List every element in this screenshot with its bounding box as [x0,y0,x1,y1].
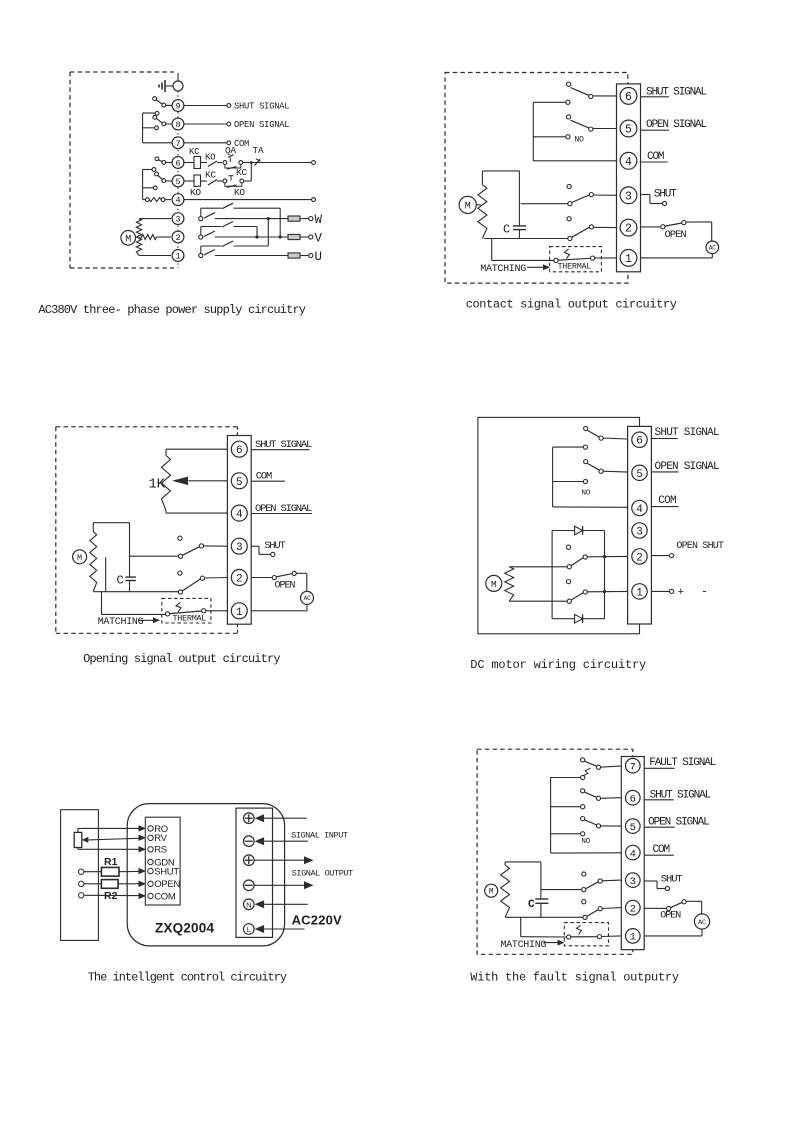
svg-text:2: 2 [636,552,643,564]
svg-text:5: 5 [625,124,632,137]
svg-text:2: 2 [630,903,636,915]
svg-text:KO: KO [190,187,201,198]
svg-text:KO: KO [205,153,215,163]
svg-text:KO: KO [234,187,245,198]
svg-text:6: 6 [625,91,632,104]
svg-text:3: 3 [636,527,643,539]
svg-text:MATCHING: MATCHING [98,617,144,628]
svg-text:contact signal output circuitr: contact signal output circuitry [466,298,677,312]
svg-text:AC220V: AC220V [292,913,342,928]
svg-text:AC: AC [698,919,706,927]
svg-text:2: 2 [236,574,243,586]
svg-text:With the fault signal outputry: With the fault signal outputry [470,971,679,985]
svg-text:3: 3 [236,542,243,554]
svg-text:THERMAL: THERMAL [558,262,592,272]
svg-text:5: 5 [630,822,636,834]
svg-text:NO: NO [582,838,591,846]
svg-text:SHUT: SHUT [654,188,677,200]
svg-text:KC: KC [189,147,200,157]
svg-text:3: 3 [630,876,636,888]
svg-text:FAULT SIGNAL: FAULT SIGNAL [649,757,716,769]
svg-text:OPEN SIGNAL: OPEN SIGNAL [234,120,289,130]
svg-text:L: L [247,925,251,934]
svg-text:1K: 1K [149,477,166,493]
svg-text:+: + [678,587,685,599]
svg-text:ZXQ2004: ZXQ2004 [155,920,214,935]
svg-text:Opening signal output circuitr: Opening signal output circuitry [83,652,280,666]
svg-text:8: 8 [175,120,180,130]
svg-text:OPEN: OPEN [660,911,681,922]
svg-text:COM: COM [256,470,272,482]
svg-text:RS: RS [154,845,167,856]
svg-text:4: 4 [636,504,643,516]
svg-text:N: N [246,900,251,909]
svg-text:M: M [77,553,82,563]
svg-text:M: M [491,579,497,590]
svg-text:6: 6 [236,445,243,457]
svg-text:4: 4 [630,848,636,860]
svg-text:COM: COM [653,844,670,856]
svg-text:AC: AC [304,595,311,602]
svg-text:SHUT: SHUT [264,540,285,552]
svg-text:AC380V three- phase power supp: AC380V three- phase power supply circuit… [38,303,305,317]
svg-text:M: M [465,201,471,212]
svg-text:COM: COM [647,151,664,163]
svg-text:4: 4 [625,156,632,169]
svg-text:KC: KC [205,170,216,181]
svg-text:9: 9 [175,102,180,112]
svg-text:NO: NO [582,490,591,498]
svg-text:M: M [489,888,494,897]
svg-text:4: 4 [236,509,243,521]
svg-text:RV: RV [154,833,167,844]
svg-text:U: U [315,250,323,264]
svg-text:R1: R1 [104,856,118,868]
svg-text:5: 5 [236,477,243,489]
svg-text:1: 1 [630,932,636,944]
svg-text:M: M [125,235,131,246]
svg-text:SHUT SIGNAL: SHUT SIGNAL [655,427,720,439]
svg-text:6: 6 [636,436,643,448]
svg-text:THERMAL: THERMAL [173,614,207,624]
svg-text:C: C [117,574,124,588]
svg-text:C: C [528,899,535,911]
svg-text:SIGNAL OUTPUT: SIGNAL OUTPUT [292,868,353,878]
svg-text:OPEN: OPEN [275,581,296,592]
svg-text:SIGNAL INPUT: SIGNAL INPUT [291,830,348,840]
svg-text:-: - [701,586,708,599]
svg-text:OPEN: OPEN [665,229,687,241]
svg-text:4: 4 [175,196,180,206]
svg-text:TA: TA [253,145,264,156]
svg-text:7: 7 [630,762,636,774]
svg-text:COM: COM [154,891,176,902]
svg-text:1: 1 [625,253,632,266]
svg-text:NO: NO [575,136,585,145]
svg-text:3: 3 [625,190,632,203]
svg-text:C: C [503,223,510,237]
svg-text:COM: COM [234,139,249,149]
svg-text:OPEN SIGNAL: OPEN SIGNAL [646,119,707,131]
svg-text:5: 5 [175,177,180,187]
svg-text:OPEN: OPEN [154,879,180,890]
svg-text:1: 1 [236,607,243,619]
svg-text:2: 2 [625,223,632,236]
svg-text:5: 5 [636,469,643,481]
svg-text:DC motor wiring circuitry: DC motor wiring circuitry [470,658,646,672]
svg-text:W: W [315,213,323,227]
svg-text:SHUT: SHUT [154,867,179,878]
svg-text:The intellgent control circuit: The intellgent control circuitry [88,971,287,985]
svg-text:2: 2 [175,233,180,243]
svg-text:SHUT SIGNAL: SHUT SIGNAL [234,102,289,112]
svg-text:3: 3 [175,215,180,225]
svg-text:OPEN SHUT: OPEN SHUT [676,541,724,552]
svg-text:SHUT: SHUT [661,874,683,886]
svg-text:MATCHING: MATCHING [501,940,547,951]
svg-text:QA: QA [225,145,236,156]
svg-text:KC: KC [236,167,247,178]
svg-text:6: 6 [175,159,180,169]
svg-text:MATCHING: MATCHING [480,264,526,275]
svg-text:1: 1 [175,252,180,262]
svg-text:V: V [315,231,323,245]
svg-text:AC: AC [709,245,716,252]
svg-text:1: 1 [636,587,643,599]
svg-text:7: 7 [175,139,180,149]
svg-text:6: 6 [630,794,636,806]
svg-text:COM: COM [658,495,676,507]
